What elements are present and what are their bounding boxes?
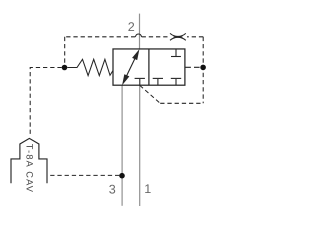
port 2 line [139, 14, 141, 49]
valve V1 body [113, 49, 185, 85]
svg-text:1: 1 [144, 182, 151, 196]
blocked port 1 (left position) [135, 78, 145, 85]
spring [67, 59, 113, 75]
pilot branch to valve right side [185, 66, 200, 68]
pilot line: bottom-right run [160, 102, 203, 104]
port 1 line [139, 85, 141, 206]
pilot drain diagonal from port 1 [140, 85, 160, 103]
pilot line: right vertical [202, 37, 204, 104]
junction dot right [200, 65, 206, 71]
flow path arrow 3-2 (left position) [122, 49, 139, 85]
svg-text:2: 2 [128, 20, 135, 34]
blocked port 2 (right position) [171, 49, 181, 57]
pilot line: top run right of hop to top-right corner [187, 36, 203, 38]
port 3 line [121, 85, 123, 206]
junction dot left [62, 65, 68, 71]
pilot line: top run left of hop [65, 36, 136, 38]
orifice (fixed restriction) [170, 33, 186, 40]
drain line cartridge to port 3 dot [47, 174, 119, 176]
junction dot on port 3 [119, 173, 125, 179]
blocked port 1 (right position) [171, 78, 181, 85]
hop over port 2 line [135, 34, 141, 37]
pilot line: left vertical (top corner down to dot) [64, 37, 66, 65]
svg-text:T-8A CAV: T-8A CAV [24, 144, 34, 193]
pilot line: dot to left corner and down to cartridge [30, 68, 62, 137]
blocked port 3 (right position) [153, 78, 163, 85]
svg-text:3: 3 [109, 182, 116, 196]
cartridge cavity outline [11, 138, 47, 183]
